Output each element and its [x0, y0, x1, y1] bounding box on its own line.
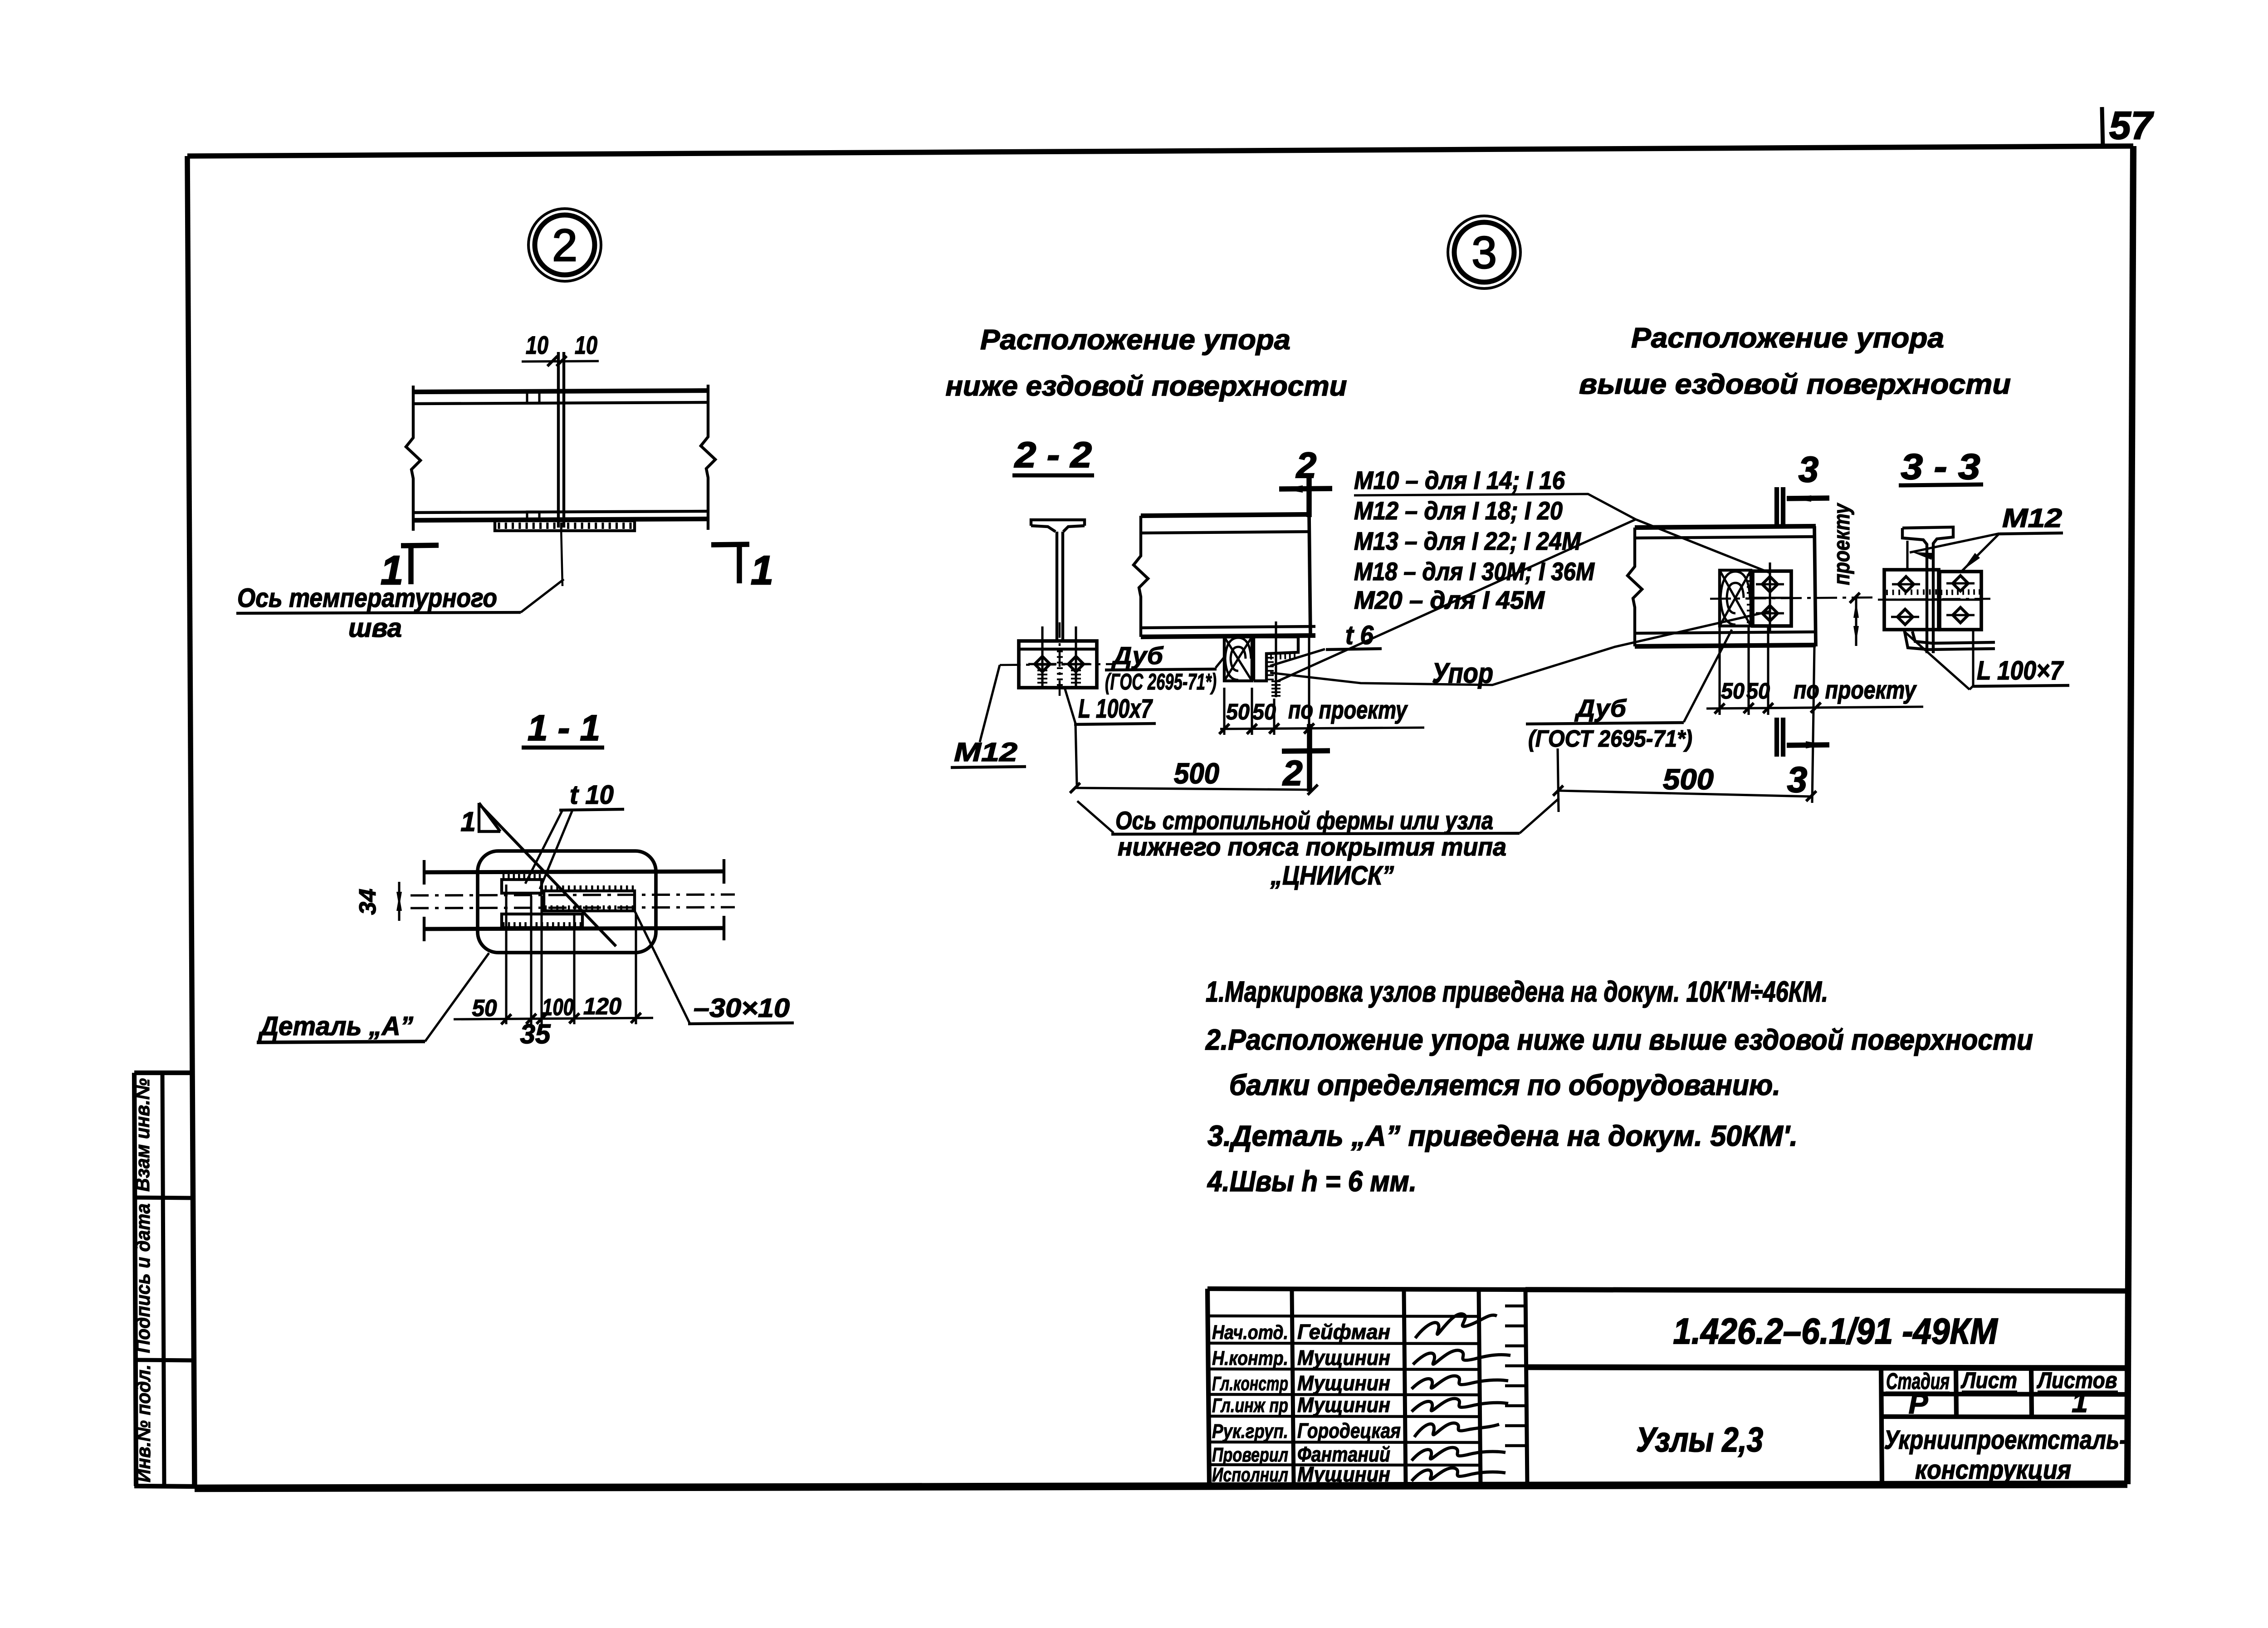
splice strap lower with weld ticks: [502, 914, 582, 928]
svg-text:3 - 3: 3 - 3: [1901, 446, 1980, 487]
detail dim extension lines: [506, 885, 636, 1024]
svg-text:по проекту: по проекту: [1288, 695, 1408, 724]
clamp bolt left: [1028, 626, 1056, 688]
svg-text:М12: М12: [2002, 504, 2062, 533]
svg-text:М13 – для I 22; I 24М: М13 – для I 22; I 24М: [1354, 527, 1581, 555]
L100x7 leader: [1065, 688, 1077, 785]
svg-text:ниже ездовой поверхности: ниже ездовой поверхности: [946, 371, 1347, 402]
label t10: [559, 780, 624, 810]
dim 50 c: [1721, 679, 1745, 704]
dim ext lines 2-2: [1224, 637, 1309, 735]
t6 leader: [1270, 649, 1325, 666]
note 4: [1207, 1165, 1417, 1198]
svg-text:М12 – для I 18; I 20: М12 – для I 18; I 20: [1354, 496, 1563, 525]
svg-text:Р: Р: [1909, 1387, 1928, 1420]
svg-text:1: 1: [460, 807, 475, 837]
I-beam web: [1057, 532, 1063, 641]
svg-text:3: 3: [1787, 759, 1808, 800]
svg-text:Проверил: Проверил: [1212, 1444, 1288, 1466]
svg-text:нижнего пояса покрытия типа: нижнего пояса покрытия типа: [1118, 832, 1506, 861]
dim по проекту 2-2: [1288, 695, 1408, 724]
svg-text:1 - 1: 1 - 1: [528, 708, 600, 748]
rail section 3-3: [1902, 527, 1953, 556]
label Деталь А: [257, 1012, 425, 1042]
stamp middle column dashes: [1505, 1306, 1525, 1446]
svg-text:50: 50: [1252, 700, 1276, 724]
label Дуб ГОС 2-2: [1105, 642, 1217, 694]
ось leader right: [1520, 798, 1559, 833]
beam 2-2 top flange: [1141, 514, 1310, 533]
svg-text:Гл.инж пр: Гл.инж пр: [1212, 1394, 1288, 1417]
leader to seam axis: [521, 579, 564, 612]
detail beam edge bottom: [424, 916, 724, 941]
svg-text:проекту: проекту: [1829, 503, 1854, 585]
svg-text:Узлы 2,3: Узлы 2,3: [1636, 1421, 1763, 1459]
dim line 50 50 по проекту (2-2): [1219, 724, 1424, 734]
label М12 (section 2-2): [951, 738, 1026, 768]
дуб block 3: [1720, 570, 1751, 626]
svg-text:50: 50: [1721, 679, 1745, 704]
svg-text:2: 2: [1282, 753, 1302, 793]
label Ось температурного шва: [236, 583, 521, 643]
note 2: [1205, 1023, 2033, 1056]
dim 120: [583, 993, 621, 1020]
signature squiggles: [1412, 1314, 1510, 1481]
svg-text:500: 500: [1663, 763, 1714, 796]
bolt list row M18: [1354, 557, 1595, 586]
svg-text:Лист: Лист: [1960, 1368, 2017, 1393]
svg-text:Н.контр.: Н.контр.: [1212, 1347, 1288, 1369]
dim 50 b: [1252, 700, 1276, 724]
svg-text:Мущинин: Мущинин: [1297, 1371, 1390, 1395]
svg-text:2.Расположение упора ниже или: 2.Расположение упора ниже или выше ездов…: [1205, 1023, 2033, 1056]
svg-text:Инв.№ подл.: Инв.№ подл.: [132, 1364, 155, 1482]
svg-text:Дуб: Дуб: [1574, 695, 1627, 722]
plate left 3-3: [1884, 570, 1939, 630]
page number 57: [2109, 104, 2154, 147]
dim ext lines 3: [1720, 626, 1814, 803]
section mark 3 top: [1777, 449, 1829, 526]
Дуб 3 leader: [1684, 630, 1732, 722]
beam top flange: [413, 391, 708, 404]
title расположение ниже line2: [946, 371, 1347, 402]
beam 3 axis: [1710, 597, 1876, 599]
svg-text:конструкция: конструкция: [1915, 1455, 2071, 1485]
svg-text:Ось температурного: Ось температурного: [237, 583, 497, 613]
dim line 10/10: [522, 356, 599, 366]
svg-text:Городецкая: Городецкая: [1297, 1419, 1401, 1442]
label t6: [1326, 621, 1382, 650]
svg-text:50: 50: [1226, 700, 1250, 724]
svg-text:L 100х7: L 100х7: [1078, 694, 1153, 724]
label ось стропильной line1: [1115, 806, 1493, 835]
node circle 3: [1448, 216, 1520, 288]
svg-text:Подпись и дата: Подпись и дата: [132, 1203, 154, 1353]
note 1: [1206, 975, 1828, 1008]
beam left end break: [406, 386, 420, 531]
title block boxes: [1525, 1290, 2128, 1484]
label Упор: [1432, 658, 1493, 689]
label Взам инв.№ (rotated): [132, 1078, 154, 1192]
svg-text:Мущинин: Мущинин: [1297, 1393, 1390, 1417]
signature table grid: [1207, 1289, 1527, 1485]
svg-text:Расположение упора: Расположение упора: [1631, 323, 1944, 354]
svg-text:10: 10: [575, 331, 597, 359]
slope mark 1 with triangle: [460, 803, 500, 837]
svg-text:Рук.груп.: Рук.груп.: [1212, 1420, 1288, 1442]
title расположение выше line1: [1631, 323, 1944, 354]
slope diagonal line: [479, 804, 616, 946]
svg-text:Мущинин: Мущинин: [1297, 1462, 1390, 1486]
svg-text:(ГОС 2695-71*): (ГОС 2695-71*): [1105, 669, 1217, 694]
label ЦНИИСК: [1270, 861, 1394, 890]
svg-text:100: 100: [542, 994, 574, 1021]
svg-text:Ось стропильной фермы или узла: Ось стропильной фермы или узла: [1115, 806, 1493, 835]
svg-text:500: 500: [1174, 757, 1219, 790]
temperature seam double line: [558, 352, 564, 528]
ось underline: [1111, 833, 1520, 834]
beam right end break: [701, 385, 715, 530]
svg-text:Деталь „А”: Деталь „А”: [258, 1012, 413, 1041]
weld gap box top: [527, 392, 539, 403]
page number 57 tick: [2102, 107, 2103, 148]
angle profile 3-3: [1904, 630, 1995, 650]
beam 3 top flange: [1635, 526, 1816, 538]
svg-text:1: 1: [751, 548, 773, 593]
svg-text:балки определяется по обору: балки определяется по оборудованию.: [1229, 1069, 1780, 1101]
svg-text:шва: шва: [348, 613, 402, 643]
3-3 axis: [1878, 599, 1990, 600]
dim по проекту 3: [1794, 675, 1917, 704]
beam bottom flange: [413, 511, 708, 520]
упор plate 3: [1747, 571, 1791, 626]
section mark 2 top: [1279, 445, 1332, 517]
dim 50: [472, 995, 497, 1022]
svg-text:t 6: t 6: [1345, 621, 1374, 650]
detail beam edge top: [424, 859, 724, 885]
clamp web hatch: [1057, 651, 1063, 685]
temperature seam axis line: [561, 528, 562, 586]
detail axis dash lines: [411, 895, 735, 908]
dim 35: [520, 1019, 551, 1049]
splice plate with weld ticks: [495, 521, 635, 531]
dim 34 (rotated): [355, 882, 402, 921]
beam 3 left end break: [1628, 528, 1642, 646]
label L100х7: [1074, 694, 1156, 724]
header Листов: [2037, 1368, 2118, 1393]
svg-text:М12: М12: [954, 738, 1017, 767]
note 2 line 2: [1229, 1069, 1780, 1101]
svg-text:Укрниипроектсталь-: Укрниипроектсталь-: [1884, 1425, 2127, 1455]
bolt list row M12: [1354, 496, 1563, 525]
дуб block 2-2: [1224, 637, 1252, 681]
section mark 2 bottom: [1282, 724, 1330, 793]
svg-text:3: 3: [1471, 227, 1497, 278]
svg-text:1.Маркировка узлов приведена н: 1.Маркировка узлов приведена на докум. 1…: [1206, 975, 1828, 1008]
Дуб 2-2 leader: [1216, 655, 1226, 668]
ось axis line view 3: [1558, 748, 1559, 812]
bolt axis stub 3-3: [1906, 541, 1908, 571]
svg-text:Расположение упора: Расположение упора: [980, 324, 1290, 356]
dim line 50 50 по проекту (3): [1706, 703, 1923, 714]
signature table texts: [1212, 1320, 1401, 1486]
label -30x10: [688, 993, 794, 1024]
svg-text:10: 10: [526, 331, 548, 359]
bolt list row M20: [1354, 586, 1545, 614]
value Р: [1909, 1387, 1928, 1420]
svg-text:50: 50: [1746, 679, 1770, 704]
упор bolts 3: [1756, 562, 1784, 633]
svg-text:М18 – для I 30М; I 36М: М18 – для I 30М; I 36М: [1354, 557, 1595, 586]
sheet frame left border: [187, 156, 195, 1488]
dim 500 (2-2): [1070, 757, 1318, 795]
svg-text:2: 2: [552, 220, 577, 271]
М12 3-3 leaders: [1910, 533, 1999, 572]
splice strap upper with weld ticks: [502, 874, 542, 893]
clamp plate box: [1019, 641, 1097, 688]
Упор leader: [1270, 611, 1769, 685]
title расположение ниже line1: [980, 324, 1290, 356]
header Стадия: [1886, 1369, 1950, 1394]
company name: [1884, 1425, 2127, 1485]
svg-text:1.426.2–6.1/91 -49КМ: 1.426.2–6.1/91 -49КМ: [1673, 1311, 1999, 1351]
svg-text:35: 35: [520, 1019, 551, 1049]
svg-text:3.Деталь „А” приведена на: 3.Деталь „А” приведена на докум. 50КМ'.: [1207, 1120, 1798, 1152]
dim 50 a: [1226, 700, 1250, 724]
label 3-3: [1899, 446, 1983, 487]
svg-text:3: 3: [1799, 449, 1819, 489]
bolt list leader to 2-2: [1277, 519, 1636, 681]
svg-text:(ГОСТ 2695-71*): (ГОСТ 2695-71*): [1528, 726, 1692, 752]
bolt list leader to 3: [1636, 519, 1769, 572]
title расположение выше line2: [1579, 369, 2011, 400]
svg-text:120: 120: [583, 993, 621, 1020]
note 3: [1207, 1120, 1798, 1152]
plate right 3-3: [1940, 572, 1981, 630]
title Узлы 2,3: [1636, 1421, 1763, 1459]
sheet frame right border: [2127, 146, 2133, 1484]
label L100x7 (3-3): [1973, 656, 2069, 686]
dim 500 (3): [1553, 763, 1816, 801]
label Инв.№ подл. (rotated): [132, 1364, 155, 1482]
section mark 1 left: [381, 545, 439, 593]
beam 2-2 right end: [1309, 514, 1310, 637]
value 1: [2072, 1386, 2088, 1418]
dim по проекту vertical: [1829, 503, 1860, 646]
beam 3 right end: [1814, 526, 1816, 646]
node circle 2: [528, 209, 601, 281]
I-beam section axis: [1000, 622, 1116, 699]
label ось стропильной line2: [1118, 832, 1506, 861]
dim 100: [542, 994, 574, 1021]
svg-text:57: 57: [2109, 104, 2154, 147]
rail web 3-3: [1927, 556, 1933, 653]
svg-text:4.Швы h = 6 мм.: 4.Швы h = 6 мм.: [1207, 1165, 1417, 1198]
beam 2-2 left end break: [1134, 516, 1148, 637]
svg-text:Дуб: Дуб: [1111, 642, 1164, 670]
svg-text:t 10: t 10: [570, 780, 614, 810]
weld gap box bottom: [527, 512, 539, 519]
label 2-2: [1012, 435, 1094, 475]
sheet frame bottom border: [195, 1484, 2127, 1488]
bolt list bracket: [1354, 494, 1636, 519]
section mark 3 bottom: [1777, 718, 1829, 800]
detail A boundary: [478, 851, 656, 953]
label 1-1: [522, 708, 604, 748]
svg-text:Гейфман: Гейфман: [1297, 1320, 1390, 1344]
svg-text:М10 – для I 14; I 16: М10 – для I 14; I 16: [1354, 466, 1565, 494]
svg-text:34: 34: [355, 889, 381, 915]
-30x10 leader: [635, 912, 689, 1023]
dim 50 d: [1746, 679, 1770, 704]
svg-text:Мущинин: Мущинин: [1297, 1346, 1390, 1369]
упор angle 2-2: [1254, 637, 1298, 681]
svg-text:1: 1: [2072, 1386, 2088, 1418]
label Подпись и дата (rotated): [132, 1203, 154, 1353]
bolt list row M13: [1354, 527, 1581, 555]
Деталь А leader: [425, 953, 489, 1041]
sheet frame top border: [187, 146, 2133, 156]
svg-text:„ЦНИИСК”: „ЦНИИСК”: [1270, 861, 1394, 890]
label Дуб ГОСТ 3: [1526, 695, 1692, 752]
splice plate right with weld ticks: [544, 885, 635, 911]
label М12 (3-3): [1999, 504, 2063, 534]
svg-text:выше ездовой поверхности: выше ездовой поверхности: [1579, 369, 2011, 400]
beam 2-2 bottom flange: [1141, 626, 1315, 637]
section mark 1 right: [711, 544, 773, 593]
left margin stamp boxes: [134, 1073, 195, 1486]
М12 leader: [980, 665, 1000, 742]
упор bolt 2-2: [1271, 621, 1281, 697]
t10 leader lines: [525, 810, 572, 889]
svg-text:50: 50: [472, 995, 497, 1022]
svg-text:L 100×7: L 100×7: [1977, 656, 2064, 685]
dim text 10 10: [526, 331, 597, 359]
svg-text:по проекту: по проекту: [1794, 675, 1917, 704]
document number: [1673, 1311, 1999, 1351]
ось leader left: [1077, 801, 1114, 833]
detail dim line: [454, 1013, 653, 1024]
svg-text:Исполнил: Исполнил: [1212, 1464, 1288, 1486]
L100x7 3-3 leader: [1904, 630, 1973, 689]
svg-text:2: 2: [1295, 445, 1317, 485]
svg-text:М20 – для I 45М: М20 – для I 45М: [1354, 586, 1545, 614]
I-beam section top flange: [1031, 520, 1085, 532]
svg-text:Взам инв.№: Взам инв.№: [132, 1078, 154, 1192]
svg-text:–30×10: –30×10: [694, 993, 790, 1023]
svg-text:Гл.констр: Гл.констр: [1212, 1373, 1288, 1395]
beam 3 bottom flange: [1635, 632, 1816, 646]
header Лист: [1960, 1368, 2017, 1393]
clamp bolt right: [1062, 626, 1090, 688]
svg-text:Нач.отд.: Нач.отд.: [1212, 1321, 1288, 1344]
bolt list row M10: [1354, 466, 1565, 494]
svg-text:2 - 2: 2 - 2: [1014, 435, 1092, 475]
